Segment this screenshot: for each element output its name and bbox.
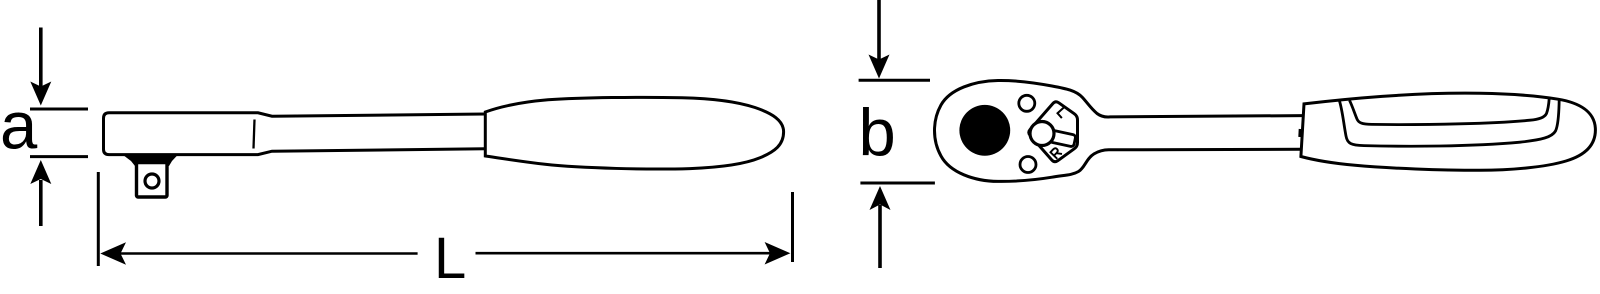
label R on lever plate xyxy=(1050,147,1062,158)
side view: square drive hole xyxy=(145,174,159,188)
side view: square drive flange (black) xyxy=(123,155,178,166)
dimension b bottom arrow xyxy=(870,186,891,268)
top view: grip inner window xyxy=(1350,99,1550,125)
dimension L left extension line xyxy=(97,172,100,266)
svg-text:a: a xyxy=(0,89,38,164)
top view: lever handle xyxy=(1049,130,1076,147)
top view: lever knob xyxy=(1030,122,1054,146)
top view: handle ferrule parting mark xyxy=(1298,129,1301,137)
dimension L right extension line xyxy=(791,192,794,262)
top view: head and shaft outline xyxy=(935,80,1303,181)
dimension b top tick xyxy=(859,79,930,82)
side view: handle outline xyxy=(485,97,783,169)
top view: pin hole bottom xyxy=(1020,157,1036,173)
dimension b bottom tick xyxy=(860,182,935,185)
dimension L right arrowhead xyxy=(765,242,791,265)
svg-text:b: b xyxy=(859,95,896,170)
top view: pin hole top xyxy=(1019,95,1035,111)
side view: head panel line xyxy=(254,120,255,149)
side view: square drive body xyxy=(137,163,168,198)
dimension L line left segment xyxy=(120,252,418,255)
dimension a top tick xyxy=(30,108,88,111)
top view: handle outer outline xyxy=(1301,93,1596,170)
top view: reverse lever plate (pentagon) xyxy=(1029,102,1078,162)
dimension a bottom tick xyxy=(30,155,88,158)
dimension L left arrowhead xyxy=(100,242,126,264)
svg-text:L: L xyxy=(434,226,466,291)
top view: grip boundary contour xyxy=(1339,99,1559,146)
dimension a bottom arrow xyxy=(30,160,51,226)
top view: drive square (black circle) xyxy=(959,105,1010,156)
dimension L line right segment xyxy=(476,252,773,255)
label L on lever plate xyxy=(1058,108,1069,119)
dimension b top arrow xyxy=(869,0,890,79)
side view: ratchet head and shaft outline xyxy=(104,113,486,155)
dimension a top arrow xyxy=(30,28,51,106)
